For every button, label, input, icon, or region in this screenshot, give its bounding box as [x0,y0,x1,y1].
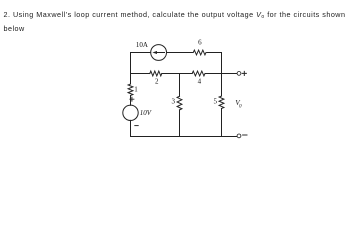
svg-text:10A: 10A [136,41,148,49]
svg-text:10V: 10V [140,109,152,117]
svg-text:2: 2 [155,77,159,85]
svg-text:1: 1 [134,86,138,94]
svg-text:3: 3 [172,98,176,106]
svg-text:4: 4 [198,77,202,85]
svg-text:V0: V0 [235,99,242,109]
svg-text:5: 5 [214,98,218,106]
svg-text:6: 6 [198,39,202,47]
